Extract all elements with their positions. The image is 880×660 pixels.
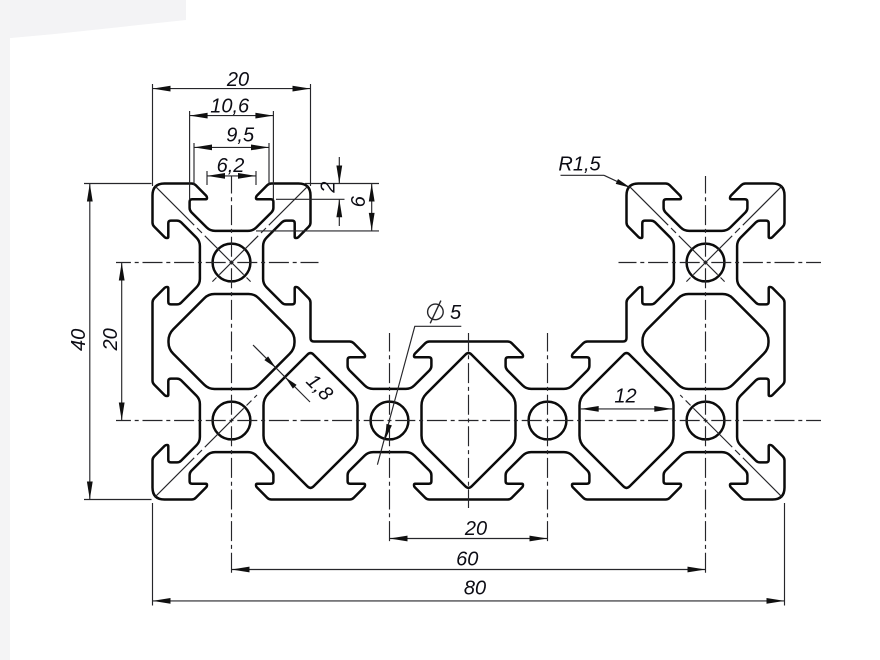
svg-text:40: 40 <box>68 329 90 351</box>
svg-text:20: 20 <box>464 518 487 540</box>
svg-text:20: 20 <box>226 69 249 91</box>
svg-text:20: 20 <box>100 328 122 351</box>
svg-text:2: 2 <box>318 182 340 194</box>
svg-text:10,6: 10,6 <box>210 95 250 117</box>
svg-text:5: 5 <box>450 302 462 324</box>
svg-text:80: 80 <box>464 578 486 600</box>
svg-text:9,5: 9,5 <box>226 124 255 146</box>
svg-text:6: 6 <box>348 195 370 207</box>
svg-text:6,2: 6,2 <box>217 155 245 177</box>
svg-text:R1,5: R1,5 <box>558 154 601 176</box>
svg-text:60: 60 <box>456 548 478 570</box>
svg-text:12: 12 <box>614 386 636 408</box>
